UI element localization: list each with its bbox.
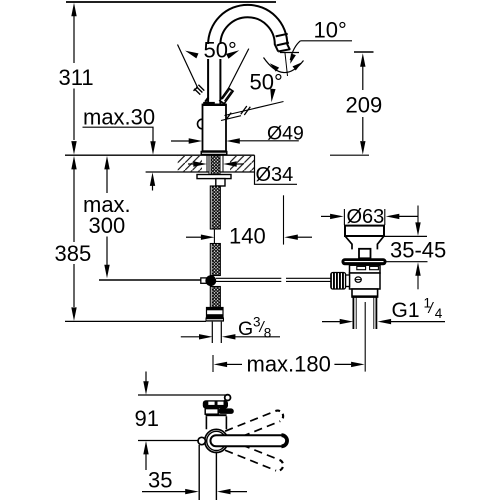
svg-text:311: 311 [59, 65, 94, 90]
pop-up knob (top view) [198, 437, 205, 444]
lever handle (hatched) [220, 88, 233, 104]
svg-text:50°: 50° [250, 70, 283, 95]
waste lower body [350, 273, 381, 289]
clamp adapter [346, 275, 350, 287]
dimension 91 (lever reach) [135, 372, 159, 471]
extension line: spout axis level [138, 440, 198, 442]
svg-text:140: 140 [229, 224, 266, 249]
lever handle (top view) [203, 395, 234, 417]
lever open-position fork symbol [194, 85, 205, 95]
svg-text:91: 91 [135, 406, 159, 431]
countertop slab with hatching [178, 155, 255, 172]
flexible supply hose (lower segment) [210, 287, 220, 308]
waste top flange [345, 226, 384, 236]
svg-text:35-45: 35-45 [390, 238, 446, 263]
label G1 1/4 (tailpipe thread) [322, 296, 445, 325]
slotted overflow body [350, 265, 381, 273]
dimension max.180 [213, 352, 365, 377]
pop-up rod joint box [201, 278, 208, 283]
dimension 140 (drain offset) [186, 195, 312, 248]
extension line: top of spout level [66, 1, 276, 3]
dimension Ø49 (body diameter) [171, 122, 304, 144]
rod clamp knurled knob [331, 273, 346, 290]
extension line: lever tip level [138, 394, 227, 396]
svg-text:8: 8 [264, 326, 272, 341]
body neck (top view) [206, 416, 226, 429]
svg-text:300: 300 [89, 213, 126, 238]
base escutcheon [201, 151, 228, 155]
svg-text:50°: 50° [204, 38, 237, 63]
drain axis line [364, 302, 366, 372]
svg-text:35: 35 [148, 468, 172, 493]
dimension 50 deg (lever swing, left) [178, 38, 249, 91]
pop-up rod ball joint [205, 275, 216, 286]
dimension 385 (depth below deck) [55, 156, 207, 322]
G 3/8 hose nut [207, 308, 224, 318]
dimension 35 (knob offset) [142, 468, 247, 495]
dimension Ø63 (waste flange) [321, 206, 418, 228]
extension line: underside of deck [146, 171, 255, 173]
rubber seal ring [342, 258, 387, 265]
dimension max.30 (deck thickness) [83, 105, 156, 191]
dimension 50 deg (spout swivel arc, right) [221, 58, 304, 121]
dimension 311 (height above deck) [59, 3, 94, 155]
tailpipe [353, 297, 376, 329]
svg-text:385: 385 [55, 241, 92, 266]
spout swivel range (dashed, up) [225, 409, 285, 442]
swivel hub rings [205, 429, 228, 452]
label G 3/8 [181, 315, 280, 341]
svg-text:Ø34: Ø34 [256, 164, 294, 186]
svg-text:Ø63: Ø63 [347, 206, 385, 228]
water stream centerline [285, 53, 288, 76]
spout swivel range (dashed, down) [225, 440, 285, 473]
waste upper body (tapered) [345, 236, 384, 249]
plug lift knob [359, 249, 371, 258]
pop-up rod lever line [99, 279, 201, 281]
spout (top view, solid position) [210, 435, 287, 446]
svg-text:10°: 10° [314, 18, 347, 43]
svg-text:4: 4 [435, 306, 443, 321]
body column (top view) [199, 445, 216, 500]
dimension 35-45 (basin thickness) [381, 206, 446, 290]
horizontal pop-up rod [216, 278, 331, 281]
svg-text:max.30: max.30 [83, 105, 155, 130]
dimension max.300 (hose length) [83, 156, 131, 278]
dimension 10 deg (spout outlet angle) [288, 18, 352, 65]
dimension Ø34 (hole diameter) [188, 161, 297, 186]
svg-text:Ø49: Ø49 [267, 122, 304, 144]
threaded shank through deck [209, 155, 220, 174]
tailpipe hub [352, 289, 378, 297]
hose collar [206, 318, 225, 322]
flexible supply hose (middle segment) [210, 244, 220, 276]
mounting washer [197, 175, 231, 179]
faucet body [198, 98, 227, 152]
gooseneck spout [208, 5, 290, 104]
svg-text:max.180: max.180 [247, 352, 331, 377]
svg-text:G1: G1 [392, 299, 420, 322]
mounting nut tab [216, 179, 225, 186]
flexible supply hose (upper segment) [210, 186, 220, 229]
supply pipe end [212, 322, 221, 343]
dimension 209 (spout outlet height) [280, 52, 382, 155]
extension line: countertop surface [65, 154, 255, 156]
svg-text:209: 209 [346, 93, 383, 118]
